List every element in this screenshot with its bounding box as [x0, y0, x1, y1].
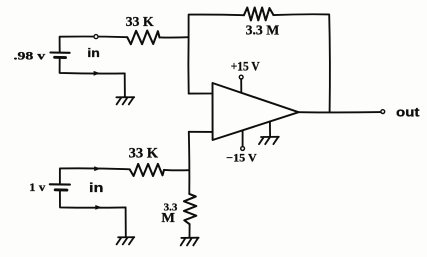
svg-text:33 K: 33 K [129, 145, 159, 161]
svg-text:out: out [396, 105, 420, 119]
svg-text:.98 v: .98 v [14, 48, 46, 62]
svg-text:in: in [87, 48, 100, 60]
svg-text:1 v: 1 v [29, 180, 45, 194]
svg-text:in: in [89, 181, 104, 195]
svg-text:3.3 M: 3.3 M [246, 22, 280, 37]
svg-text:+15 V: +15 V [231, 59, 260, 74]
svg-text:M: M [161, 210, 175, 225]
svg-text:−15 V: −15 V [226, 150, 257, 164]
svg-text:33 K: 33 K [126, 15, 154, 30]
